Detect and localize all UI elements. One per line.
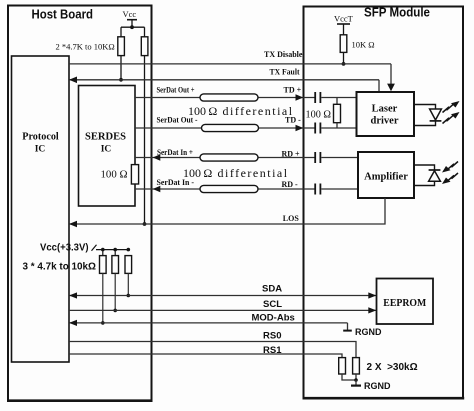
rail 3.3V (96, 249, 129, 251)
transmission line TL4 (200, 185, 258, 192)
resistor R6 (125, 256, 132, 274)
wire RD+ to amp (321, 157, 358, 159)
junction (101, 248, 105, 252)
ground RGND (351, 385, 361, 387)
op block laser driver (357, 92, 415, 136)
transmission line TL2 (202, 124, 259, 131)
svg-text:3 * 4.7k to 10kΩ: 3 * 4.7k to 10kΩ (23, 262, 97, 273)
junction (127, 248, 131, 252)
svg-text:driver: driver (371, 116, 399, 127)
svg-text:RGND: RGND (355, 327, 382, 338)
svg-text:10K Ω: 10K Ω (352, 40, 375, 50)
svg-text:100 Ω: 100 Ω (101, 169, 128, 181)
svg-text:SerDat In -: SerDat In - (157, 178, 195, 187)
svg-text:Laser: Laser (372, 104, 398, 115)
junction (130, 25, 134, 29)
resistor R8 (353, 358, 360, 374)
wire LOS (69, 198, 385, 224)
Host Board box (8, 6, 152, 401)
resistor 100 ohm (SERDES termination) (131, 165, 138, 184)
svg-text:VccT: VccT (334, 14, 354, 24)
svg-text:SerDat Out +: SerDat Out + (157, 86, 195, 95)
capacitor C2 (314, 123, 316, 134)
wire resistors to ground (342, 374, 356, 380)
light output arrows (443, 105, 454, 124)
resistor R5 (114, 250, 116, 256)
resistor R4 (102, 250, 104, 256)
svg-text:differential: differential (218, 166, 289, 180)
svg-text:SFP Module: SFP Module (364, 6, 430, 20)
junction (119, 78, 123, 82)
svg-text:differential: differential (223, 104, 294, 118)
EEPROM box U3 (377, 279, 434, 325)
svg-text:IC: IC (101, 145, 112, 155)
Protocol IC box U1 (12, 56, 70, 362)
svg-text:2 *4.7K to 10KΩ: 2 *4.7K to 10KΩ (56, 42, 115, 52)
wire RD- to amp (321, 188, 358, 190)
SFP Module box (304, 7, 464, 399)
wire R2 down (144, 56, 146, 224)
svg-text:SerDat Out -: SerDat Out - (157, 116, 198, 125)
svg-text:RD -: RD - (282, 180, 299, 189)
junction (113, 248, 117, 252)
svg-text:Amplifier: Amplifier (364, 172, 408, 183)
capacitor C3 (314, 152, 316, 163)
op block amplifier (358, 152, 414, 198)
svg-text:LOS: LOS (283, 214, 300, 223)
svg-text:SDA: SDA (262, 284, 282, 295)
junction (143, 222, 147, 226)
capacitor C1 (314, 92, 316, 103)
svg-text:TD -: TD - (285, 116, 301, 125)
svg-text:TD +: TD + (284, 86, 302, 95)
resistor R3 10K (340, 35, 347, 53)
wire R1 down (120, 56, 122, 80)
svg-text:Vcc(+3.3V): Vcc(+3.3V) (40, 243, 89, 254)
SERDES IC box U2 (79, 86, 136, 207)
light input arrows (448, 162, 459, 181)
svg-text:2 X >30kΩ: 2 X >30kΩ (367, 362, 418, 373)
svg-text:100 Ω: 100 Ω (306, 109, 332, 120)
wire TD- to laser (321, 127, 356, 129)
svg-text:RS0: RS0 (263, 331, 281, 342)
ground RGND (343, 330, 352, 332)
svg-text:SCL: SCL (263, 299, 282, 310)
capacitor C4 (314, 184, 316, 195)
wire vcc split (121, 26, 145, 28)
resistor 100 ohm (SFP side) (336, 98, 338, 105)
resistor R7 (339, 358, 346, 374)
resistor R1 (pull-up TX Fault) (118, 37, 125, 56)
svg-text:SERDES: SERDES (85, 132, 126, 143)
svg-text:IC: IC (35, 145, 46, 155)
wire R4 down to MOD-Abs (102, 273, 104, 323)
transmission line TL1 (200, 94, 258, 101)
svg-text:MOD-Abs: MOD-Abs (252, 313, 295, 324)
svg-text:TX Fault: TX Fault (270, 68, 300, 77)
laser diode D1 (430, 109, 442, 120)
wire TD+ to laser (321, 97, 356, 99)
junction (342, 62, 346, 66)
wire laser to diode (414, 105, 436, 110)
wire amp to photodiode (414, 165, 435, 170)
svg-text:EEPROM: EEPROM (383, 297, 427, 309)
svg-text:Host Board: Host Board (32, 8, 94, 22)
wire R5 down to SCL (114, 273, 116, 310)
svg-text:SerDat In +: SerDat In + (157, 148, 193, 157)
photodiode D2 (429, 169, 441, 171)
svg-text:Protocol: Protocol (22, 132, 59, 143)
transmission line TL3 (200, 154, 258, 161)
wire R6 down to SDA (127, 273, 129, 295)
resistor R2 (pull-up LOS) (141, 37, 148, 56)
svg-text:Vcc: Vcc (123, 9, 137, 19)
svg-text:RGND: RGND (364, 381, 391, 392)
svg-text:TX Disable: TX Disable (264, 50, 303, 59)
wire R3 down (343, 52, 345, 64)
